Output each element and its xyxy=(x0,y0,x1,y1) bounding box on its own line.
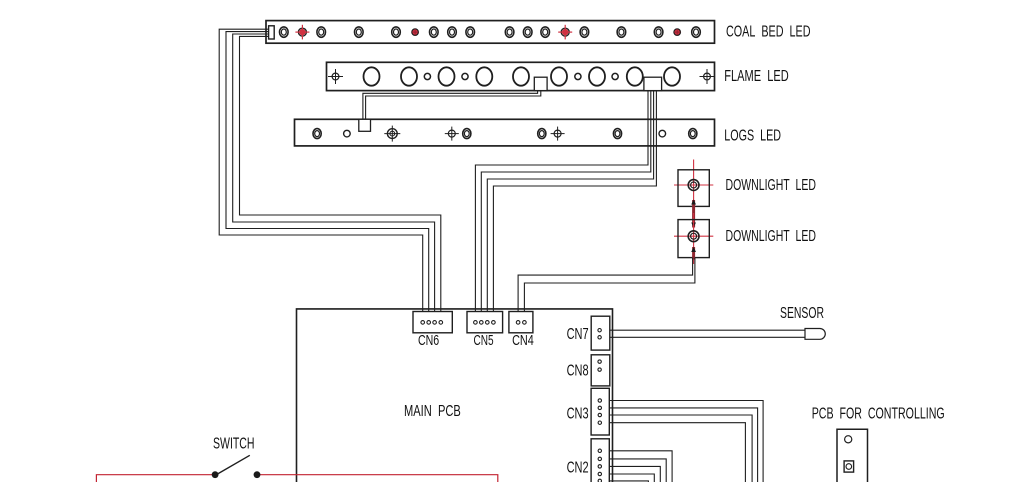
coal bed LED xyxy=(580,27,589,37)
svg-text:DOWNLIGHT LED: DOWNLIGHT LED xyxy=(726,177,817,194)
svg-text:CN2: CN2 xyxy=(567,459,589,476)
flame strip mounting hole xyxy=(700,69,715,84)
downlight LED 1 red axis line xyxy=(693,160,695,214)
connector CN5 xyxy=(467,312,503,333)
PCB for controlling outline xyxy=(837,429,868,482)
wire downlight to CN4 pin 2 xyxy=(524,258,695,320)
svg-text:CN7: CN7 xyxy=(567,326,589,343)
wire flame to CN5 pin 2 xyxy=(481,91,651,320)
downlight arrow below downlight 2 xyxy=(691,247,696,260)
downlight LED 1 red cross line xyxy=(674,184,713,186)
wire coal bed to CN6 pin 3 xyxy=(233,34,435,320)
flame LED xyxy=(589,67,605,85)
switch xyxy=(212,455,261,478)
coal bed LED xyxy=(505,27,514,37)
wire CN3 pin 4 xyxy=(609,423,745,482)
svg-text:FLAME LED: FLAME LED xyxy=(724,68,788,85)
coal bed LED xyxy=(448,27,457,37)
logs strip mounting hole xyxy=(445,127,459,141)
flame LED xyxy=(439,67,455,85)
sensor wire 2 xyxy=(610,336,806,338)
mains wire right xyxy=(257,475,498,482)
coal bed LED xyxy=(317,27,326,37)
coal bed red LED xyxy=(674,29,681,36)
downlight LED 2 red cross line xyxy=(674,235,713,237)
logs strip connector xyxy=(359,119,371,131)
svg-text:COAL BED LED: COAL BED LED xyxy=(726,23,811,40)
flame LED xyxy=(664,67,680,85)
wire flame to CN5 pin 1 xyxy=(475,91,648,320)
flame small LED xyxy=(424,73,430,79)
coal bed LED xyxy=(280,27,289,37)
wire flame to logs strip 2 xyxy=(366,91,541,120)
logs strip mounting hole xyxy=(384,126,400,142)
flame strip connector 2 xyxy=(644,77,662,90)
logs LED strip outline xyxy=(295,119,715,146)
flame LED strip outline xyxy=(327,62,715,90)
connector CN8 xyxy=(591,355,610,386)
svg-text:MAIN PCB: MAIN PCB xyxy=(404,403,461,420)
logs small LED xyxy=(344,130,351,137)
downlight LED 1 box xyxy=(678,170,709,207)
logs LED xyxy=(463,129,471,139)
connector CN7 xyxy=(591,316,610,350)
coal bed LED xyxy=(430,27,439,37)
logs LED xyxy=(689,129,697,139)
wire coal bed to CN6 pin 1 xyxy=(219,29,423,320)
flame small LED xyxy=(612,73,618,79)
wire CN3 pin 2 xyxy=(609,408,757,482)
svg-text:CN6: CN6 xyxy=(418,333,439,349)
coal bed red LED xyxy=(295,25,309,40)
wire coal bed to CN6 pin 2 xyxy=(226,32,429,320)
coal bed LED xyxy=(392,27,401,37)
svg-text:CN3: CN3 xyxy=(567,406,589,423)
downlight LED 2 lamp xyxy=(688,231,699,242)
coal bed LED strip outline xyxy=(266,21,715,44)
wire flame to logs strip 1 xyxy=(363,91,538,120)
logs LED xyxy=(538,129,546,139)
flame strip connector 1 xyxy=(534,77,547,90)
coal bed LED xyxy=(617,27,626,37)
flame LED xyxy=(364,67,380,85)
wire flame to CN5 pin 3 xyxy=(487,91,653,320)
coal bed LED xyxy=(654,27,663,37)
wire CN2 pin 3 xyxy=(609,466,660,482)
connector CN2 xyxy=(591,439,609,482)
wire downlight to CN4 pin 1 xyxy=(518,258,693,320)
mains wire left xyxy=(96,475,215,482)
logs small LED xyxy=(659,130,666,137)
downlight LED 2 box xyxy=(678,220,709,258)
connector CN6 xyxy=(413,312,452,333)
wire coal bed to CN6 pin 4 xyxy=(240,36,441,320)
coal bed red LED xyxy=(558,25,572,40)
connector CN3 xyxy=(591,388,609,435)
svg-text:DOWNLIGHT LED: DOWNLIGHT LED xyxy=(726,228,817,245)
wire CN3 pin 3 xyxy=(609,415,752,482)
svg-text:SENSOR: SENSOR xyxy=(780,305,824,322)
wire flame to CN5 pin 4 xyxy=(493,91,656,320)
svg-text:CN8: CN8 xyxy=(567,363,589,380)
flame LED xyxy=(401,67,417,85)
wire CN2 pin 5 xyxy=(609,481,648,482)
sensor wire 1 xyxy=(610,329,806,331)
coal bed LED xyxy=(355,27,364,37)
flame small LED xyxy=(575,73,581,79)
flame LED xyxy=(476,67,492,85)
wire CN2 pin 1 xyxy=(609,451,672,482)
downlight LED 1 lamp xyxy=(688,180,699,191)
coal bed strip input connector xyxy=(269,26,275,39)
flame LED xyxy=(513,67,529,85)
coal bed LED xyxy=(466,27,475,37)
coal bed LED xyxy=(692,27,701,37)
coal bed LED xyxy=(541,27,550,37)
wire CN2 pin 4 xyxy=(609,474,654,482)
logs strip mounting hole xyxy=(551,127,565,141)
sensor capsule xyxy=(805,329,825,340)
downlight arrow between downlights xyxy=(691,200,696,228)
svg-text:CN5: CN5 xyxy=(474,333,494,349)
flame LED xyxy=(551,67,567,85)
flame LED xyxy=(627,67,643,85)
svg-text:CN4: CN4 xyxy=(512,333,534,349)
svg-text:LOGS LED: LOGS LED xyxy=(724,128,781,145)
main PCB outline xyxy=(297,309,613,482)
downlight LED 2 red axis line xyxy=(693,213,695,264)
PCB for controlling component xyxy=(844,461,854,472)
flame small LED xyxy=(462,73,468,79)
wire CN2 pin 2 xyxy=(609,459,666,482)
connector CN4 xyxy=(509,312,533,333)
wire CN3 pin 1 xyxy=(609,401,763,482)
flame strip mounting hole xyxy=(328,69,343,84)
coal bed red LED xyxy=(412,29,419,36)
svg-text:PCB FOR CONTROLLING: PCB FOR CONTROLLING xyxy=(812,406,945,423)
svg-text:SWITCH: SWITCH xyxy=(213,436,255,453)
PCB for controlling hole xyxy=(845,436,852,443)
logs LED xyxy=(613,129,621,139)
logs LED xyxy=(313,129,321,139)
coal bed LED xyxy=(523,27,532,37)
